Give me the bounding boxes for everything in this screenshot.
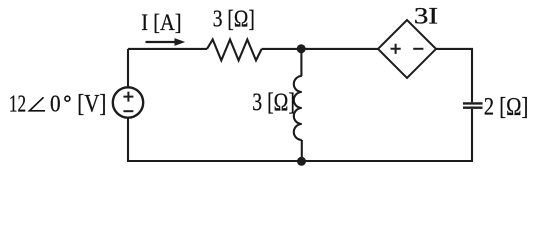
svg-text:I [A]: I [A] [141, 10, 181, 36]
svg-text:2 [Ω]: 2 [Ω] [484, 92, 529, 121]
svg-text:12: 12 [9, 91, 26, 118]
svg-text:3 [Ω]: 3 [Ω] [213, 5, 255, 32]
svg-text:0: 0 [50, 91, 61, 118]
svg-text:[V]: [V] [77, 91, 106, 118]
svg-text:3 [Ω]: 3 [Ω] [252, 89, 295, 116]
svg-text:3I: 3I [414, 3, 438, 29]
